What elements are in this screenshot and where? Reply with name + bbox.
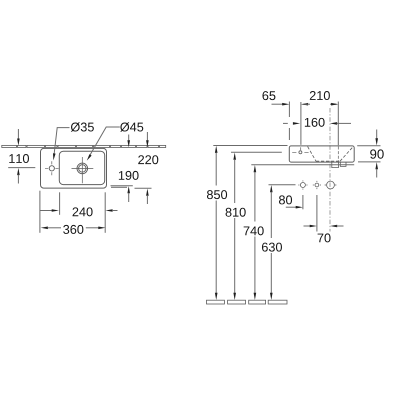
tap axis tick above hole [300,147,302,150]
dimension 190 (wall to bowl front) [111,135,139,203]
washbasin outer rim (plan view) [41,148,107,188]
wall line (plan view, tiled band) [2,145,166,147]
dimension 360 (overall width) [41,225,106,234]
dimension 160 (tap to drain axis) [283,118,351,127]
dimension 90 (basin height) [357,130,384,178]
washbasin body (elevation) [289,146,354,162]
tap hole (plan view) [49,166,54,171]
fixing hole middle [315,183,319,187]
dimension 810 (floor to tap hole) [226,152,282,300]
dimension 110 (wall to tap centre) [8,129,35,184]
dimension 630 (floor to fixing holes) [262,185,296,300]
dimension 220 (wall to rim front) [135,132,159,204]
tap hole centreline dashes [292,151,308,153]
leader arrow Ø35 [53,153,56,160]
leader arrow Ø45 [87,154,92,161]
drain centre axis (dash-dot) [329,108,331,232]
extension line fixing axis [337,102,339,146]
extension line tap axis [300,102,302,145]
leader for Ø35 [54,128,70,156]
label Ø35 [71,122,94,131]
drain fitting below basin [332,162,346,168]
drain hole (plan view) [77,163,88,174]
drain hole inner circle [79,165,86,172]
label Ø45 [120,122,143,131]
dimension 70 (fixing hole to drain axis) [304,195,344,242]
dimension 850 (floor to rim) [207,146,288,301]
extension line outer-left [39,191,41,233]
dimension 240 (bowl width) [40,207,118,216]
basin bowl (plan view) [59,151,104,184]
hidden line fixing axis through basin [337,147,339,162]
dimension 80 (axis to fixing hole) [279,195,303,209]
extension line bowl-left [59,192,61,215]
fixing hole left [300,183,305,188]
tap hole (elevation) [299,151,302,154]
drain hole (elevation) [327,181,335,189]
tap hole centerlines [45,161,59,175]
floor line (tiles) [207,300,288,304]
wall bracket line behind basin (740 reference) [251,164,354,166]
dimension 210 (tap to fixing) [301,91,338,105]
extension line basin left edge (elevation top) [288,102,290,141]
extension line right [104,192,106,233]
leader for Ø45 [89,127,120,157]
dimension 65 (edge to tap) [262,91,289,105]
hidden bowl outline (elevation, dashed) [308,147,353,162]
dimension 740 (floor to bracket) [244,165,264,300]
drain centerlines [72,157,94,183]
